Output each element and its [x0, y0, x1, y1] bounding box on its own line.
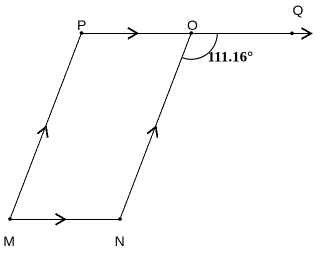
- arrow on segment M-P: [37, 127, 47, 138]
- arrow at end of ray O-Q: [302, 28, 312, 39]
- svg-text:M: M: [3, 233, 15, 249]
- svg-text:N: N: [115, 233, 125, 249]
- arrow on segment M-N: [56, 214, 66, 225]
- node Q: [290, 32, 294, 36]
- wire segment N-O (right side): [120, 33, 191, 219]
- arrow on segment N-O: [147, 127, 157, 138]
- svg-text:Q: Q: [293, 2, 304, 18]
- arrow on segment P-O: [128, 28, 138, 39]
- node M: [8, 217, 12, 221]
- wire segment M-P (left side): [10, 33, 82, 219]
- svg-text:111.16°: 111.16°: [208, 50, 254, 66]
- svg-text:O: O: [187, 17, 198, 33]
- svg-text:P: P: [77, 17, 86, 33]
- node P: [80, 31, 84, 35]
- angle arc at O: [182, 33, 217, 59]
- wire segment P-O extended to ray toward Q: [82, 33, 312, 35]
- node N: [118, 217, 122, 221]
- wire segment M-N (bottom side): [10, 219, 120, 221]
- node O: [190, 31, 194, 35]
